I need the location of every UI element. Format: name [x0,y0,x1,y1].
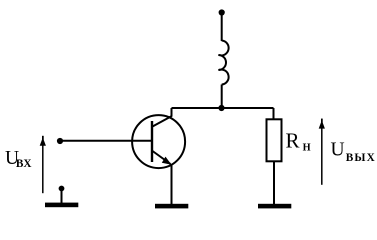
transistor Q1 collector lead (diagonal) [153,116,172,127]
transistor Q1 emitter arrowhead [162,157,172,165]
node: junction dot at collector bus [218,105,224,111]
svg-text:Н: Н [303,142,311,153]
node: lower input terminal dot [59,186,65,192]
resistor RH (load) body [267,119,282,161]
ground: input ground bar [45,203,78,208]
inductor L1 (collector load coil) [219,41,229,85]
ground: emitter ground bar [155,204,188,209]
wire: collector bus (horizontal) [172,107,274,109]
node: input terminal dot [57,138,63,144]
svg-text:U: U [331,140,345,161]
transistor Q1 base bar [151,121,153,162]
svg-text:ВЫХ: ВЫХ [346,152,376,164]
wire: collector stub down to transistor [171,108,173,117]
wire: top terminal to inductor [221,13,223,42]
transistor Q1 emitter lead (diagonal) [153,151,171,164]
wire: base lead from input terminal [60,140,152,142]
transistor Q1 (NPN BJT) circle [132,115,185,168]
svg-text:ВХ: ВХ [16,158,32,170]
wire: emitter down to ground [171,164,173,205]
wire: resistor to ground [273,161,275,205]
svg-text:R: R [286,129,300,153]
wire: inductor to collector node [221,85,223,109]
node: supply terminal (top) [219,9,225,15]
wire: bus down to resistor [273,108,275,120]
wire: lower terminal stub to ground [61,189,63,205]
ground: load ground bar [258,204,291,209]
arrow: input voltage direction (up) [42,136,44,193]
arrow: output voltage direction (up) [321,119,323,185]
